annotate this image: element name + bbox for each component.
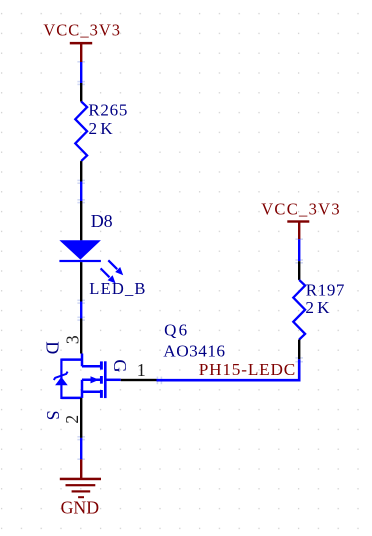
svg-text:G: G xyxy=(110,359,130,372)
svg-text:AO3416: AO3416 xyxy=(163,341,225,360)
svg-text:LED_B: LED_B xyxy=(89,279,146,298)
svg-text:1: 1 xyxy=(137,360,146,380)
svg-text:2: 2 xyxy=(62,415,82,424)
svg-text:R265: R265 xyxy=(88,101,128,120)
svg-text:GND: GND xyxy=(61,498,100,518)
svg-text:2K: 2K xyxy=(89,119,116,138)
svg-text:D: D xyxy=(43,341,63,354)
svg-text:Q6: Q6 xyxy=(164,321,189,340)
svg-text:PH15-LEDC: PH15-LEDC xyxy=(199,360,296,379)
svg-text:D8: D8 xyxy=(91,211,113,231)
svg-text:VCC_3V3: VCC_3V3 xyxy=(43,20,121,39)
svg-text:3: 3 xyxy=(62,335,82,344)
svg-text:2K: 2K xyxy=(305,298,332,317)
svg-text:S: S xyxy=(43,410,63,420)
svg-text:VCC_3V3: VCC_3V3 xyxy=(261,199,341,218)
svg-text:R197: R197 xyxy=(306,281,345,300)
